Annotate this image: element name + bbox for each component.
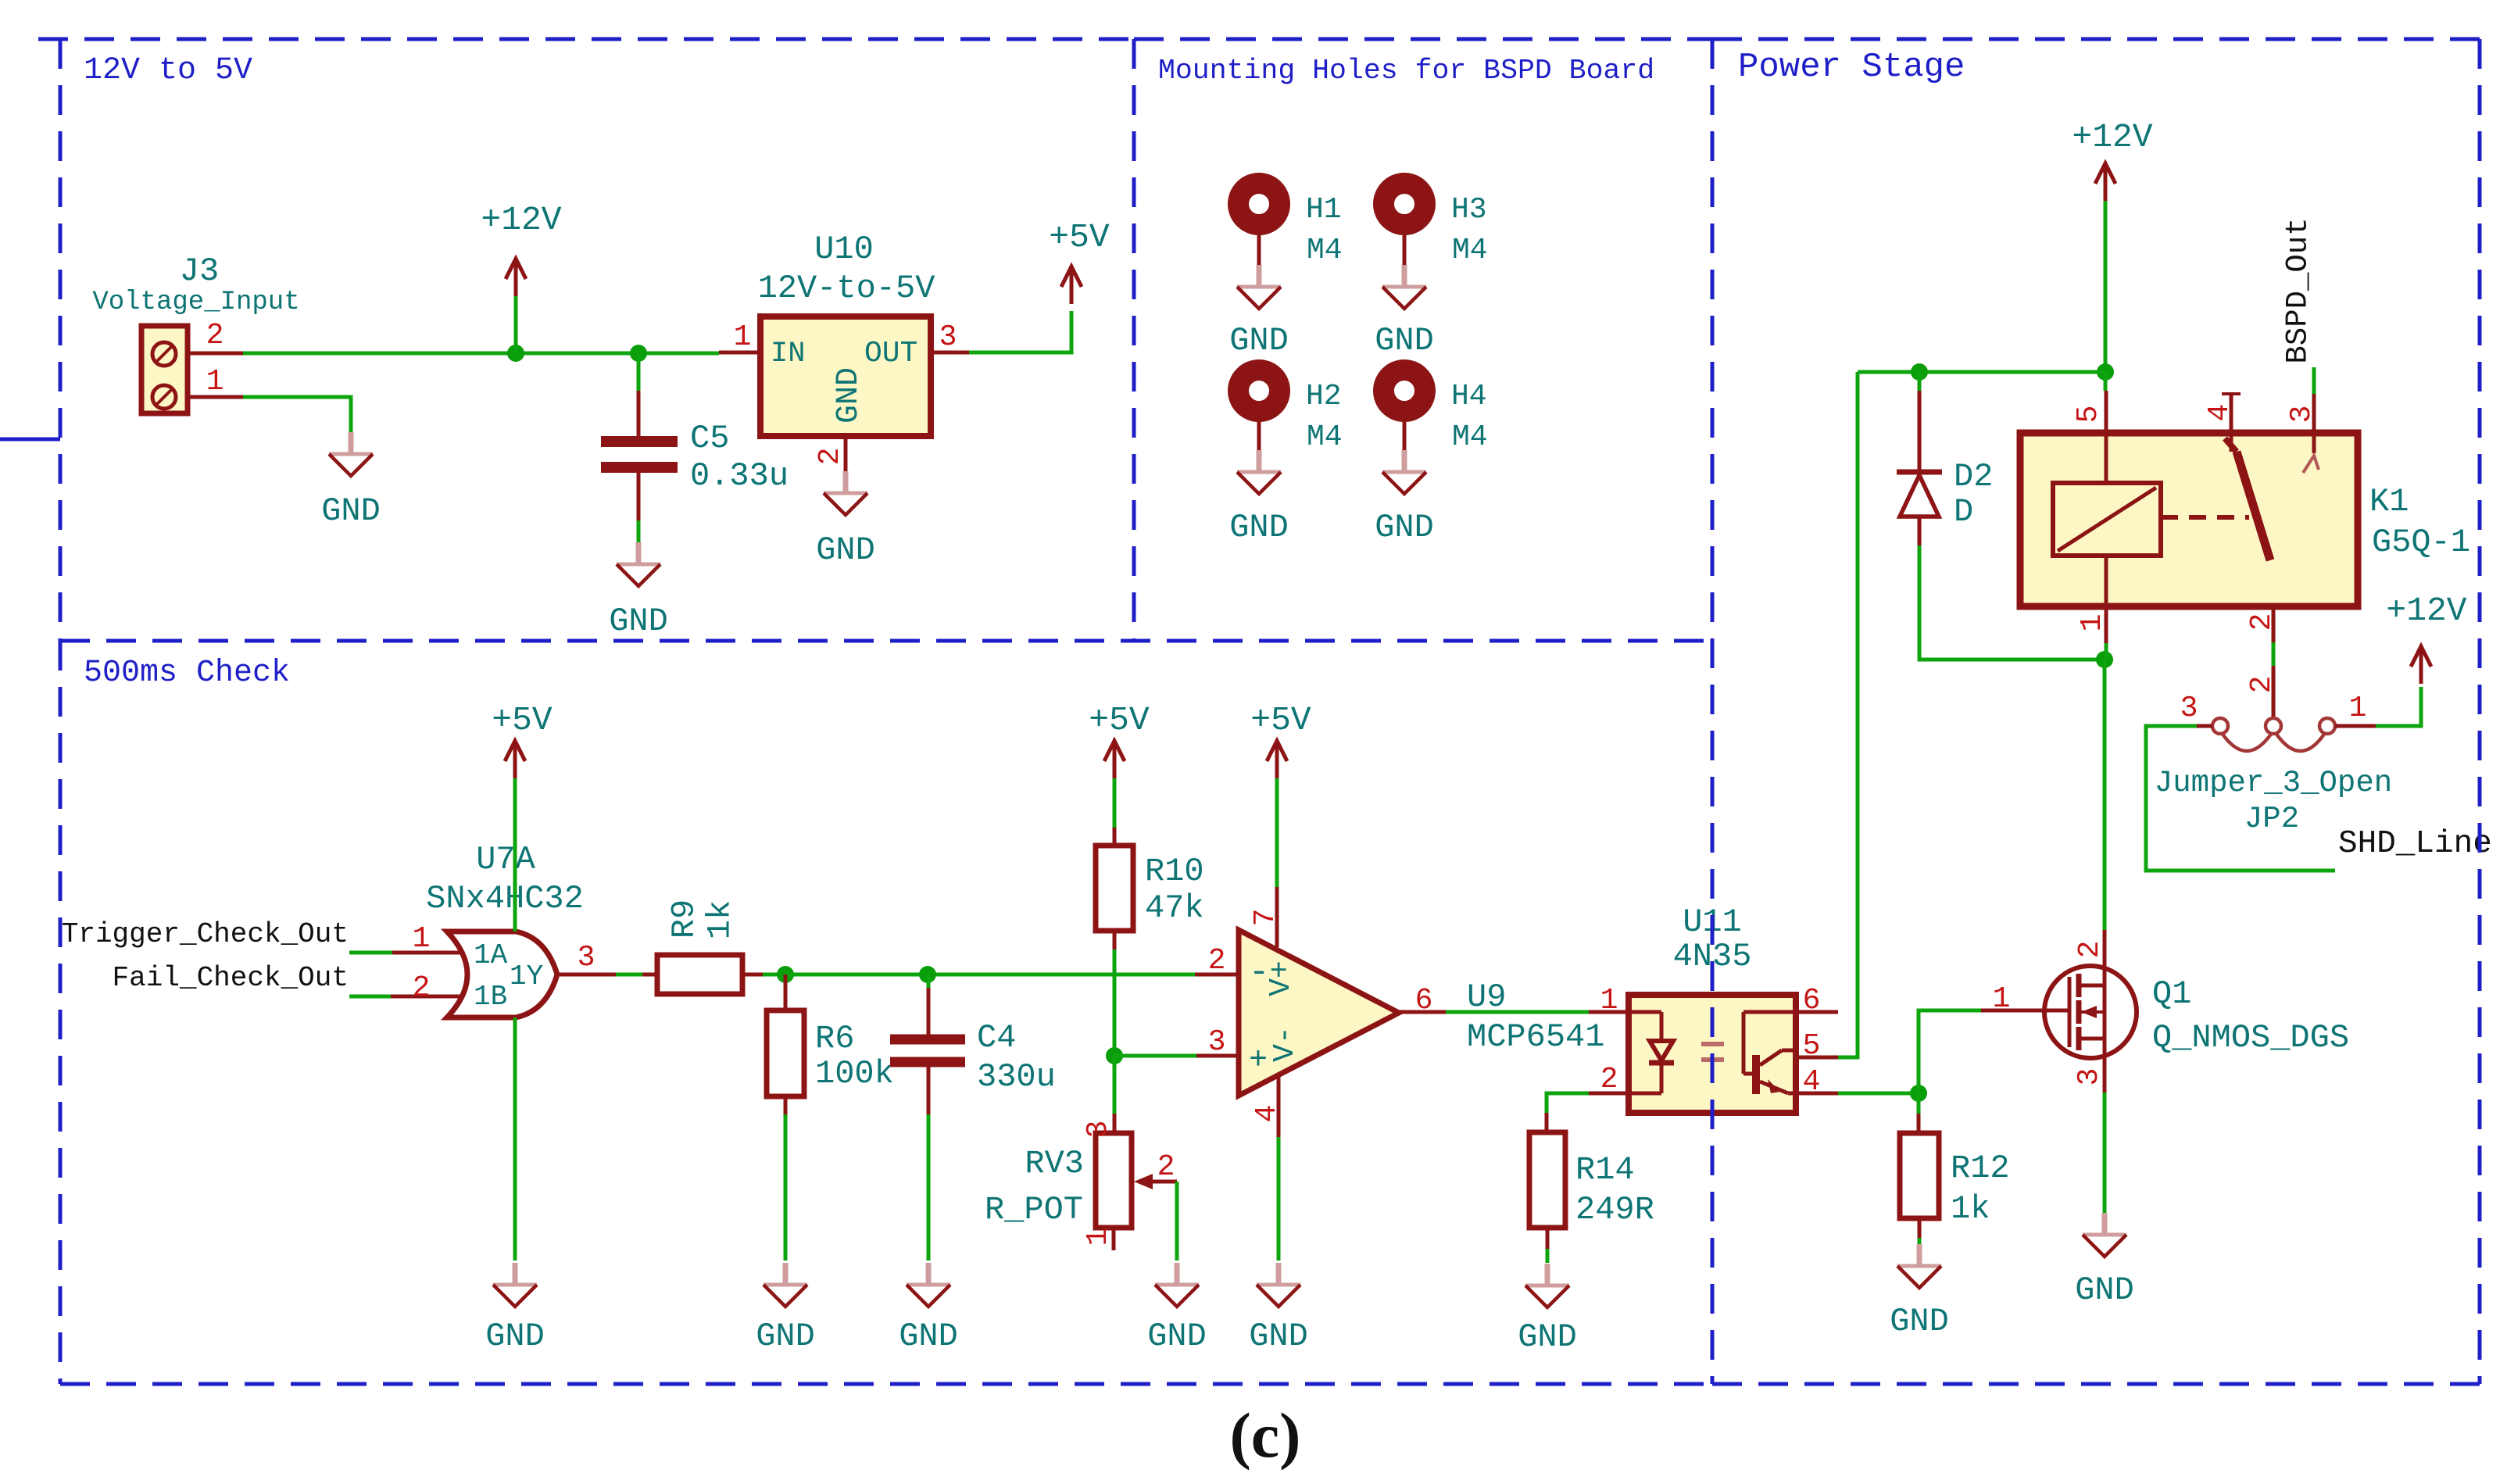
- pin 2 of J3: [188, 319, 243, 353]
- pin wire of H2: [1257, 422, 1261, 452]
- pin 1 of U11: [1589, 984, 1629, 1017]
- svg-text:1: 1: [2076, 614, 2109, 632]
- svg-text:2: 2: [1600, 1063, 1618, 1096]
- svg-text:3: 3: [1082, 1121, 1115, 1139]
- svg-text:5: 5: [1803, 1029, 1821, 1063]
- svg-text:D: D: [1954, 493, 1973, 531]
- power symbol +5V section1: [1049, 218, 1110, 304]
- svg-text:GND: GND: [1229, 322, 1289, 359]
- svg-text:R12: R12: [1951, 1150, 2010, 1187]
- pin 4 of U9 (V-): [1250, 1074, 1284, 1137]
- section frame: 12V to 5V / outer border top-left: [38, 39, 1134, 641]
- pin 6 of U11: [1796, 984, 1838, 1017]
- pin wire of H1: [1257, 235, 1261, 265]
- junction C4 node: [919, 966, 936, 983]
- wire node to Q1 gate: [1919, 1010, 1981, 1093]
- wire node down to Q1 drain: [2103, 660, 2107, 930]
- svg-text:GND: GND: [1249, 1318, 1308, 1355]
- svg-text:2: 2: [1208, 944, 1226, 978]
- svg-text:M4: M4: [1452, 420, 1488, 454]
- regulator U10: [760, 316, 931, 436]
- svg-text:Trigger_Check_Out: Trigger_Check_Out: [62, 918, 349, 950]
- svg-text:Power Stage: Power Stage: [1738, 48, 1965, 87]
- power symbol +5V R10: [1089, 701, 1150, 778]
- junction +12V tap: [507, 345, 524, 362]
- pin 5 of K1: [2072, 391, 2106, 433]
- svg-text:(c): (c): [1229, 1400, 1300, 1471]
- pin 2 of K1: [2245, 606, 2279, 642]
- wire J3 pin2 to U10 IN: [243, 352, 719, 356]
- svg-text:+12V: +12V: [2072, 118, 2152, 156]
- svg-text:1: 1: [734, 320, 752, 354]
- svg-text:GND: GND: [1375, 322, 1434, 359]
- ground below H2: [1229, 450, 1289, 546]
- pin 2 of JP2: [2245, 666, 2279, 717]
- pin 2 of U9: [1195, 944, 1239, 978]
- pin 6 of U9 (output): [1399, 984, 1446, 1017]
- svg-text:+12V: +12V: [481, 201, 561, 239]
- svg-text:12V to 5V: 12V to 5V: [84, 53, 252, 88]
- pin 3 of U9: [1196, 1025, 1239, 1059]
- sheet edge mark left: [0, 438, 60, 442]
- svg-text:1Y: 1Y: [510, 960, 543, 992]
- pin 1 of K1: [2076, 606, 2109, 643]
- power symbol +5V opamp: [1250, 701, 1311, 778]
- wire R10 to RV3 node: [1113, 949, 1117, 1056]
- junction rail/coil node: [2097, 363, 2114, 381]
- wire +5V to pin7: [1275, 776, 1279, 887]
- pin 2 of U10 (GND): [814, 436, 847, 477]
- svg-text:V-: V-: [1268, 1026, 1302, 1062]
- svg-text:V+: V+: [1264, 960, 1298, 996]
- svg-text:GND: GND: [1147, 1318, 1207, 1355]
- svg-text:1: 1: [1993, 982, 2011, 1016]
- wire D2 to low node: [1919, 545, 2105, 660]
- svg-text:GND: GND: [1890, 1303, 1949, 1340]
- svg-text:C4: C4: [977, 1019, 1016, 1057]
- svg-text:GND: GND: [2075, 1271, 2134, 1309]
- pin 4 of U11: [1796, 1065, 1838, 1099]
- or-gate U7A: [447, 932, 557, 1017]
- svg-text:+: +: [1249, 1043, 1268, 1078]
- svg-text:GND: GND: [1518, 1318, 1577, 1356]
- pin 2 of U7A: [391, 971, 463, 1005]
- svg-text:2: 2: [1157, 1150, 1175, 1184]
- svg-text:M4: M4: [1452, 234, 1488, 267]
- wire U10 OUT to +5V: [969, 311, 1071, 352]
- svg-text:6: 6: [1415, 984, 1433, 1017]
- svg-text:3: 3: [578, 941, 595, 974]
- op-amp U9: [1239, 930, 1399, 1096]
- wire input 1A: [349, 951, 392, 955]
- svg-text:R6: R6: [815, 1020, 854, 1057]
- wire input 1B: [349, 995, 391, 999]
- ground below R14: [1518, 1264, 1577, 1356]
- jumper JP2: [2197, 718, 2376, 751]
- svg-text:H3: H3: [1451, 193, 1487, 227]
- svg-text:U10: U10: [814, 231, 874, 268]
- wire pin4 to GND: [1277, 1137, 1281, 1261]
- svg-text:1A: 1A: [474, 939, 508, 971]
- svg-text:+5V: +5V: [492, 701, 553, 739]
- svg-text:1: 1: [2349, 692, 2367, 725]
- svg-text:5: 5: [2072, 406, 2105, 424]
- capacitor C4: [890, 974, 965, 1114]
- wire +12V node to K1 pin5: [2104, 372, 2108, 391]
- svg-text:GND: GND: [1229, 509, 1289, 546]
- svg-text:H2: H2: [1306, 380, 1342, 413]
- svg-text:+5V: +5V: [1049, 218, 1110, 256]
- section frame: 500ms Check: [60, 641, 1712, 1384]
- svg-text:1: 1: [1082, 1228, 1115, 1246]
- svg-text:500ms Check: 500ms Check: [84, 656, 290, 691]
- junction R9/R6 node: [777, 966, 794, 983]
- wire JP2 pin1 to +12V: [2376, 687, 2421, 726]
- svg-text:IN: IN: [771, 338, 805, 370]
- svg-text:2: 2: [206, 319, 224, 352]
- svg-text:330u: 330u: [977, 1058, 1056, 1096]
- svg-text:Fail_Check_Out: Fail_Check_Out: [113, 962, 349, 994]
- svg-text:4: 4: [1803, 1065, 1821, 1099]
- section frame: Mounting Holes box: [1134, 39, 1712, 641]
- svg-text:RV3: RV3: [1025, 1145, 1084, 1182]
- svg-text:1k: 1k: [1951, 1190, 1990, 1228]
- svg-text:+5V: +5V: [1250, 701, 1311, 739]
- optocoupler U11: [1629, 995, 1796, 1113]
- pin 4 of K1: [2203, 394, 2241, 421]
- wire node down to RV3: [1113, 1056, 1117, 1114]
- wire main to C4 node: [785, 973, 1195, 977]
- svg-text:H1: H1: [1306, 193, 1342, 227]
- svg-text:Mounting Holes for BSPD Board: Mounting Holes for BSPD Board: [1158, 55, 1654, 87]
- junction D2 node: [1911, 363, 1928, 381]
- wire J3 pin1 to GND: [243, 397, 351, 437]
- wire +5V to U7A top: [513, 776, 517, 932]
- svg-text:GND: GND: [485, 1318, 545, 1355]
- ground below U9: [1249, 1263, 1308, 1355]
- svg-text:3: 3: [2285, 406, 2319, 424]
- ground below U7A: [485, 1263, 545, 1355]
- svg-text:4: 4: [1250, 1105, 1284, 1123]
- wire U11 pin5 riser: [1838, 372, 1858, 1057]
- resistor R9: [642, 955, 763, 994]
- wire K1 pin2 to JP2: [2272, 642, 2276, 666]
- svg-text:Voltage_Input: Voltage_Input: [92, 288, 299, 317]
- pin 3 of U7A (output): [558, 941, 616, 974]
- svg-text:M4: M4: [1307, 234, 1343, 267]
- svg-text:GND: GND: [1375, 509, 1434, 546]
- svg-text:4: 4: [2203, 404, 2237, 422]
- svg-text:Jumper_3_Open: Jumper_3_Open: [2155, 766, 2392, 800]
- wire C5 bottom: [637, 520, 641, 542]
- svg-text:7: 7: [1249, 909, 1282, 927]
- svg-text:BSPD_Out: BSPD_Out: [2280, 217, 2315, 363]
- svg-text:GND: GND: [756, 1318, 815, 1355]
- wire U11 pin4 to gate node: [1838, 1092, 1919, 1096]
- svg-text:M4: M4: [1307, 420, 1343, 454]
- svg-text:2: 2: [2245, 613, 2279, 631]
- wire 12V rail horizontal: [1858, 370, 2105, 374]
- svg-text:K1: K1: [2369, 483, 2409, 520]
- svg-text:C5: C5: [690, 420, 729, 457]
- mounting hole H1: [1239, 184, 1343, 268]
- svg-text:GND: GND: [899, 1318, 958, 1355]
- wire +12V down to rail: [2104, 201, 2108, 372]
- wire node to pin3: [1114, 1054, 1196, 1058]
- svg-text:R_POT: R_POT: [985, 1191, 1083, 1228]
- svg-text:H4: H4: [1451, 380, 1487, 413]
- ground below H3: [1375, 265, 1434, 359]
- svg-text:249R: 249R: [1575, 1191, 1654, 1228]
- ground below H4: [1375, 450, 1434, 546]
- svg-text:47k: 47k: [1145, 889, 1204, 927]
- resistor R6: [767, 974, 804, 1114]
- svg-text:3: 3: [2072, 1068, 2106, 1086]
- wire C5 top: [637, 353, 641, 391]
- svg-text:Q_NMOS_DGS: Q_NMOS_DGS: [2152, 1019, 2349, 1057]
- pin 3 of U10 (OUT): [931, 320, 969, 354]
- svg-text:JP2: JP2: [2244, 802, 2299, 836]
- wire U9 out to U11: [1446, 1010, 1589, 1014]
- svg-text:R14: R14: [1575, 1151, 1635, 1189]
- ground below R12: [1890, 1244, 1949, 1340]
- mounting hole H2: [1239, 370, 1343, 455]
- resistor R10: [1096, 828, 1133, 949]
- junction C5 tap: [630, 345, 647, 362]
- mounting hole H3: [1384, 184, 1488, 268]
- ground below J3: [321, 432, 381, 530]
- wire U7A bottom to GND: [513, 1017, 517, 1261]
- junction K1 pin1 node: [2096, 651, 2113, 668]
- wire R12 to GND: [1918, 1238, 1922, 1247]
- svg-text:Q1: Q1: [2152, 975, 2191, 1013]
- junction R10/RV3 node: [1106, 1047, 1123, 1064]
- svg-text:3: 3: [2180, 692, 2198, 725]
- pin 3 of Q1 (source): [2072, 1058, 2106, 1092]
- svg-text:1B: 1B: [474, 981, 507, 1013]
- svg-text:+5V: +5V: [1089, 701, 1150, 739]
- pin 1 of Q1 (gate): [1981, 982, 2044, 1016]
- svg-text:J3: J3: [180, 252, 219, 290]
- svg-text:SHD_Line: SHD_Line: [2338, 826, 2492, 862]
- transistor Q1: [2044, 966, 2137, 1058]
- ground below C5: [609, 542, 668, 640]
- svg-text:D2: D2: [1954, 458, 1993, 495]
- ground below Q1: [2075, 1213, 2134, 1309]
- wire +5V to R10: [1113, 776, 1117, 828]
- connector J3: [141, 326, 188, 413]
- svg-text:2: 2: [814, 448, 847, 466]
- svg-text:GND: GND: [321, 492, 381, 530]
- pin 1 of U7A: [392, 922, 463, 956]
- svg-text:1: 1: [413, 922, 431, 956]
- wire gate out to R9: [616, 973, 642, 977]
- ground below H1: [1229, 265, 1289, 359]
- wire Q1 source to GND: [2103, 1092, 2107, 1213]
- pin wire of H4: [1403, 422, 1407, 452]
- svg-text:2: 2: [2245, 676, 2279, 694]
- wire R14 to GND: [1546, 1249, 1550, 1263]
- svg-text:U7A: U7A: [476, 841, 535, 878]
- ground below U10: [816, 471, 875, 569]
- svg-text:0.33u: 0.33u: [690, 457, 789, 495]
- svg-text:1: 1: [1600, 984, 1618, 1017]
- section frame: Power Stage: [1712, 39, 2480, 1384]
- svg-text:6: 6: [1803, 984, 1821, 1017]
- wire RV3 wiper to GND: [1175, 1182, 1179, 1261]
- pin 7 of U9 (V+): [1249, 887, 1282, 947]
- svg-text:1k: 1k: [702, 900, 739, 939]
- power symbol +12V jumper: [2386, 592, 2466, 684]
- svg-text:12V-to-5V: 12V-to-5V: [758, 270, 935, 307]
- resistor R12: [1900, 1114, 1939, 1238]
- svg-text:R10: R10: [1145, 853, 1204, 890]
- wire R6 to GND: [784, 1114, 788, 1261]
- wire C4 to GND: [927, 1114, 931, 1261]
- potentiometer RV3: [1096, 1114, 1177, 1250]
- pin 1 of J3: [188, 365, 243, 399]
- wire BSPD_Out to K1 pin3: [2312, 367, 2316, 394]
- svg-text:3: 3: [939, 320, 957, 354]
- ground below C4: [899, 1263, 958, 1355]
- mounting hole H4: [1384, 370, 1488, 455]
- wire node to R12: [1917, 1093, 1921, 1114]
- wire R9 to junction: [763, 973, 785, 977]
- ground below R6: [756, 1263, 815, 1355]
- svg-text:G5Q-1: G5Q-1: [2372, 524, 2470, 561]
- svg-text:SNx4HC32: SNx4HC32: [426, 880, 584, 917]
- pin wire of H3: [1403, 235, 1407, 265]
- svg-text:GND: GND: [831, 367, 867, 424]
- svg-text:GND: GND: [816, 531, 875, 569]
- svg-text:OUT: OUT: [864, 337, 917, 370]
- wire +12V riser: [514, 292, 518, 353]
- svg-text:2: 2: [2073, 941, 2107, 959]
- pin 2 of U11: [1589, 1063, 1629, 1096]
- svg-text:2: 2: [413, 971, 431, 1005]
- svg-text:MCP6541: MCP6541: [1467, 1018, 1604, 1056]
- relay K1: [2020, 394, 2358, 606]
- wire JP2 pin3 to SHD_Line: [2146, 726, 2335, 871]
- junction R12/gate node: [1910, 1085, 1927, 1102]
- diode D2: [1897, 372, 1942, 545]
- ground below RV3: [1147, 1263, 1207, 1355]
- svg-text:1: 1: [206, 365, 224, 399]
- power symbol +5V gate: [492, 701, 553, 778]
- capacitor C5: [601, 391, 678, 520]
- svg-text:+12V: +12V: [2386, 592, 2466, 630]
- pin 1 of U10 (IN): [719, 320, 760, 354]
- power symbol +12V section1: [481, 201, 561, 296]
- wire U11 pin2 to R14: [1547, 1093, 1589, 1113]
- pin 5 of U11: [1796, 1029, 1838, 1063]
- wire K1 pin1 to node: [2105, 643, 2108, 660]
- svg-text:100k: 100k: [815, 1055, 894, 1092]
- power symbol +12V power stage: [2072, 118, 2152, 201]
- svg-text:R9: R9: [666, 899, 703, 939]
- svg-text:GND: GND: [609, 603, 668, 640]
- pin 2 of Q1 (drain): [2073, 930, 2107, 966]
- svg-text:3: 3: [1208, 1025, 1226, 1059]
- resistor R14: [1529, 1113, 1565, 1249]
